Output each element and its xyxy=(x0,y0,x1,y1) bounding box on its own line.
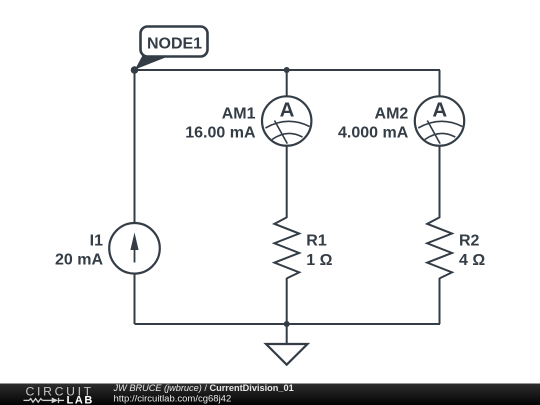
svg-text:20 mA: 20 mA xyxy=(55,252,103,269)
label AM1 value 16.00 mA xyxy=(185,105,256,141)
ammeter AM2 xyxy=(415,96,464,145)
svg-text:AM1: AM1 xyxy=(222,105,256,122)
node NODE1 callout xyxy=(131,27,208,74)
wire right branch upper (top bus to AM2) xyxy=(439,70,441,97)
wire left branch lower (I1 bottom to bottom bus) xyxy=(134,273,136,324)
wire middle branch mid (AM1 to R1) xyxy=(286,145,288,218)
current source I1 xyxy=(109,223,160,274)
ammeter AM1 xyxy=(262,96,311,145)
svg-text:1 Ω: 1 Ω xyxy=(306,252,332,269)
svg-text:LAB: LAB xyxy=(67,394,94,405)
svg-text:A: A xyxy=(432,99,447,122)
junction dot at top bus / AM1 branch xyxy=(284,67,290,73)
ground xyxy=(266,324,308,365)
junction dot at bottom bus / ground xyxy=(284,321,290,327)
wire top bus from node A to right branch xyxy=(135,69,441,71)
svg-text:AM2: AM2 xyxy=(375,105,409,122)
resistor R1 xyxy=(274,217,299,278)
svg-text:4 Ω: 4 Ω xyxy=(459,252,485,269)
wire right branch lower (R2 to bottom bus) xyxy=(439,278,441,324)
svg-text:R1: R1 xyxy=(306,233,327,250)
wire middle branch lower (R1 to bottom bus) xyxy=(286,278,288,324)
wire middle branch upper (top bus to AM1) xyxy=(286,70,288,97)
svg-text:NODE1: NODE1 xyxy=(147,36,202,53)
label AM2 value 4.000 mA xyxy=(338,105,409,141)
CircuitLab logo schematic: wire, resistor, diode xyxy=(24,398,65,404)
wire right branch mid (AM2 to R2) xyxy=(439,145,441,218)
svg-text:R2: R2 xyxy=(459,233,480,250)
label R2 value 4 ohm xyxy=(459,233,485,270)
resistor R2 xyxy=(427,217,452,278)
svg-text:16.00 mA: 16.00 mA xyxy=(185,125,256,142)
wire bottom bus xyxy=(135,323,441,325)
label I1 value 20 mA xyxy=(55,232,103,268)
label R1 value 1 ohm xyxy=(306,233,332,270)
svg-text:http://circuitlab.com/cg68j42: http://circuitlab.com/cg68j42 xyxy=(114,394,232,405)
svg-text:A: A xyxy=(280,99,295,122)
svg-text:4.000 mA: 4.000 mA xyxy=(338,125,409,142)
svg-text:JW BRUCE (jwbruce) / CurrentDi: JW BRUCE (jwbruce) / CurrentDivision_01 xyxy=(113,383,294,393)
svg-text:I1: I1 xyxy=(90,232,103,249)
wire left branch upper (node A to I1 top) xyxy=(134,70,136,224)
footer bar xyxy=(0,384,540,405)
